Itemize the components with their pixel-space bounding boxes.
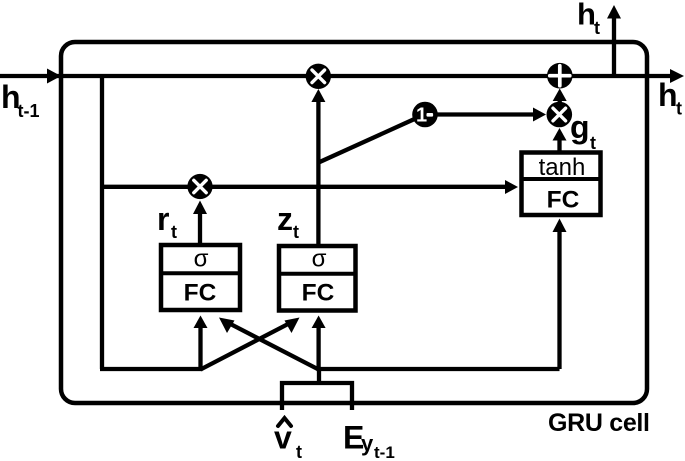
- add node: [547, 63, 573, 89]
- concat input box at bottom: [282, 383, 352, 410]
- wire: vertical arrow up into tanh FC bottom: [557, 231, 561, 369]
- wire: r_t output arrow into multiply node: [198, 213, 202, 247]
- wire: h_{t-1} main top line: [0, 74, 671, 78]
- svg-text:tanh: tanh: [539, 154, 586, 181]
- svg-text:h: h: [658, 77, 678, 113]
- wire: vertical arrow into left FC box: [198, 327, 202, 369]
- svg-text:g: g: [570, 109, 590, 145]
- svg-text:σ: σ: [194, 246, 209, 273]
- label v_hat_t: [274, 418, 302, 461]
- arrowhead: h_t output right: [670, 69, 684, 83]
- wire: r-path horizontal line to tanh FC: [100, 185, 506, 189]
- svg-text:r: r: [157, 201, 169, 237]
- wire: diagonal from z line to 1- node: [319, 119, 415, 163]
- svg-text:t: t: [293, 222, 299, 242]
- svg-text:FC: FC: [547, 187, 580, 214]
- wire: 1- node to right multiply node: [436, 112, 533, 116]
- wire: h_t branch going up: [612, 17, 616, 76]
- wire: tanh output up into multiply node: [557, 140, 561, 153]
- multiply node (r gate): [187, 174, 212, 199]
- svg-text:FC: FC: [184, 280, 217, 307]
- svg-text:t: t: [590, 133, 596, 153]
- label h_t (top): [577, 0, 600, 38]
- svg-text:GRU cell: GRU cell: [548, 409, 650, 437]
- svg-text:t: t: [296, 442, 302, 461]
- svg-text:t-1: t-1: [374, 443, 395, 461]
- wire: diagonal arrow to left FC box: [230, 324, 319, 370]
- label r_t: [157, 201, 177, 242]
- sigma/FC box (z gate): [279, 246, 356, 311]
- wire: bottom-right horizontal: [317, 367, 560, 371]
- tanh/FC box: [522, 153, 601, 216]
- svg-text:y: y: [361, 431, 374, 456]
- GRU cell boundary box: [61, 42, 647, 403]
- arrowhead into tanh FC box: [505, 180, 518, 194]
- label h_{t-1}: [1, 79, 40, 121]
- svg-text:1: 1: [416, 105, 427, 127]
- wire: concat box vertical link: [317, 367, 321, 385]
- sigma/FC box (r gate): [161, 245, 240, 310]
- svg-text:t-1: t-1: [18, 101, 40, 121]
- svg-text:t: t: [171, 222, 177, 242]
- label z_t: [277, 201, 299, 242]
- arrowhead: h_t up: [607, 5, 621, 19]
- svg-text:t: t: [594, 18, 600, 38]
- wire: vertical arrow into right FC box: [316, 327, 320, 369]
- svg-text:FC: FC: [302, 280, 335, 307]
- wire: diagonal arrow to right FC box: [201, 324, 290, 370]
- arrowhead entering cell on main line: [47, 69, 61, 84]
- wire: z_t vertical output line up to top multiply node: [316, 101, 320, 248]
- label h_t (right): [658, 77, 682, 119]
- label E_y_{t-1}: [343, 420, 395, 461]
- svg-text:σ: σ: [312, 246, 327, 273]
- 1- node: [412, 102, 438, 128]
- multiply node (g_t gate): [547, 102, 573, 128]
- multiply node on top line: [306, 64, 331, 89]
- svg-text:t: t: [676, 99, 682, 119]
- wire: bottom-left horizontal: [100, 367, 203, 371]
- wire: left inner vertical from main line: [100, 74, 104, 369]
- wire: multiply node to add node: [558, 100, 562, 104]
- label g_t: [570, 109, 596, 153]
- svg-text:z: z: [277, 201, 293, 237]
